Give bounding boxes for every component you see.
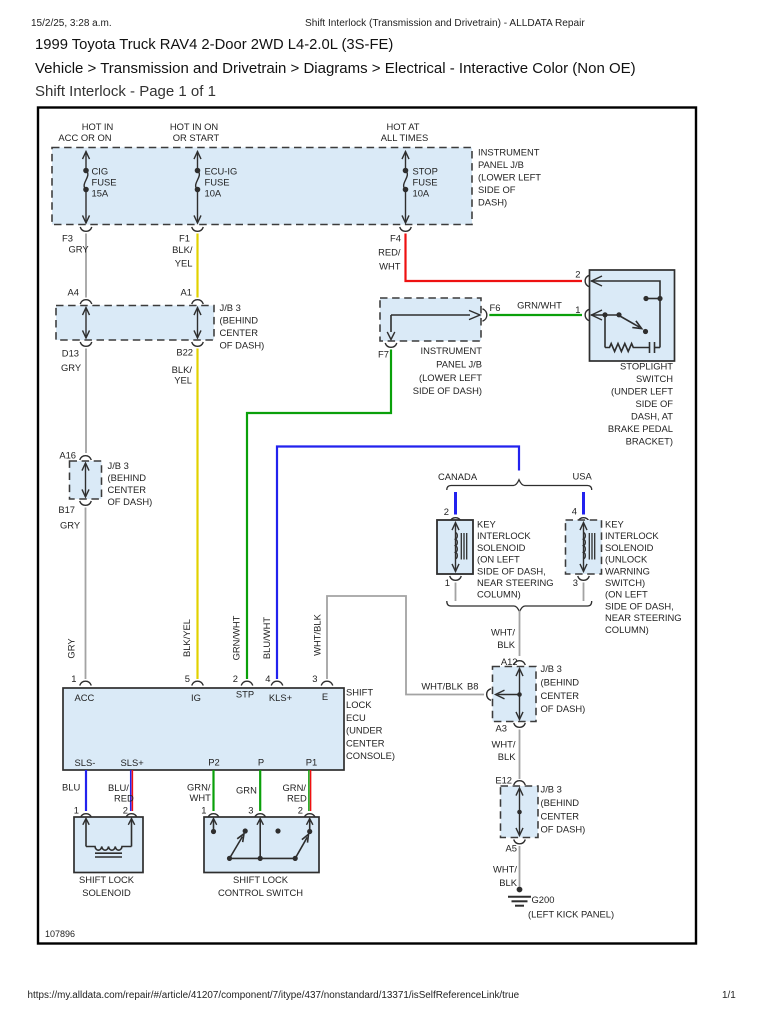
svg-text:ACC OR ON: ACC OR ON (58, 132, 111, 143)
connector pin 2 key interlock solenoid (Canada) (444, 506, 462, 522)
svg-text:2: 2 (444, 506, 449, 517)
svg-text:ECU-IG: ECU-IG (205, 165, 238, 176)
svg-text:SOLENOID: SOLENOID (82, 887, 131, 898)
brace CANADA/USA split (447, 480, 592, 490)
wire WHT/BLK brace to A12 (491, 611, 519, 657)
svg-text:CIG: CIG (92, 165, 109, 176)
wire GRN/WHT F6 to stoplight switch pin 1 (489, 300, 582, 316)
svg-text:A1: A1 (181, 287, 192, 298)
wire BLU/RED SLS+ to shift lock solenoid pin 2 (108, 770, 134, 811)
solenoid KEY INTERLOCK SOLENOID (Canada) (437, 520, 473, 574)
svg-text:KEY: KEY (477, 519, 497, 530)
svg-text:SOLENOID: SOLENOID (605, 542, 654, 553)
svg-text:HOT IN ON: HOT IN ON (170, 121, 218, 132)
svg-text:BLK: BLK (497, 639, 515, 650)
svg-text:(LOWER LEFT: (LOWER LEFT (419, 372, 482, 383)
connector B8 (467, 681, 491, 701)
svg-text:FUSE: FUSE (413, 176, 438, 187)
svg-text:J/B 3: J/B 3 (541, 784, 562, 795)
label Instrument Panel J/B (F7) (413, 345, 483, 396)
print header date (31, 18, 112, 29)
svg-text:A12: A12 (501, 656, 518, 667)
svg-text:INSTRUMENT: INSTRUMENT (478, 147, 540, 158)
svg-text:PANEL J/B: PANEL J/B (436, 358, 482, 369)
wire WHT/BLK ECU pin E to B8 (312, 596, 485, 695)
connector pin 4 key interlock solenoid (USA) (572, 506, 590, 523)
wire inside J/B to F6 (391, 314, 470, 316)
svg-text:SIDE OF: SIDE OF (478, 184, 516, 195)
footer url (28, 990, 520, 1001)
svg-text:NEAR STEERING: NEAR STEERING (477, 577, 554, 588)
svg-text:SHIFT LOCK: SHIFT LOCK (79, 874, 135, 885)
wire GRY F3 to A4 (69, 234, 90, 298)
svg-text:NEAR STEERING: NEAR STEERING (605, 612, 682, 623)
svg-text:F1: F1 (179, 233, 190, 244)
svg-text:OF DASH): OF DASH) (541, 824, 586, 835)
label STOPLIGHT SWITCH location (608, 361, 673, 447)
svg-text:(UNDER: (UNDER (346, 725, 383, 736)
svg-text:SLS+: SLS+ (121, 757, 145, 768)
svg-text:OR START: OR START (173, 132, 220, 143)
svg-text:3: 3 (573, 577, 578, 588)
fuse ECU-IG FUSE 10A (194, 152, 237, 224)
svg-text:WHT/BLK: WHT/BLK (312, 613, 323, 655)
connector A1 (181, 287, 204, 305)
wire GRN/WHT P2 to control switch pin 1 (187, 770, 214, 811)
connector F1 (179, 227, 203, 244)
svg-text:(LOWER LEFT: (LOWER LEFT (478, 172, 541, 183)
svg-text:SIDE OF DASH): SIDE OF DASH) (413, 385, 482, 396)
svg-text:COLUMN): COLUMN) (605, 624, 649, 635)
svg-text:USA: USA (573, 471, 593, 482)
label SHIFT LOCK SOLENOID (79, 874, 135, 898)
svg-text:SOLENOID: SOLENOID (477, 542, 526, 553)
connector pin 1 stoplight switch (575, 304, 589, 321)
switch SHIFT LOCK CONTROL SWITCH (204, 817, 319, 873)
wire inside J/B 3 A1-B22 (197, 308, 199, 339)
svg-text:BLU: BLU (62, 782, 80, 793)
wire inside J/B to F7 (390, 315, 392, 332)
svg-text:GRY: GRY (61, 362, 82, 373)
svg-text:J/B 3: J/B 3 (541, 663, 562, 674)
svg-text:2: 2 (233, 673, 238, 684)
svg-text:SWITCH: SWITCH (636, 373, 673, 384)
label J/B 3 (BEHIND CENTER OF DASH) (541, 784, 586, 835)
svg-text:YEL: YEL (175, 258, 193, 269)
connector A16 (59, 450, 91, 461)
svg-text:SWITCH): SWITCH) (605, 577, 645, 588)
brace merge to WHT/BLK (447, 601, 592, 612)
svg-text:WHT/: WHT/ (492, 739, 516, 750)
svg-text:CONTROL SWITCH: CONTROL SWITCH (218, 887, 303, 898)
connector pin 2 shift lock solenoid (123, 805, 138, 819)
wire BLK/YEL F1 to A1 (172, 234, 197, 298)
node HOT IN ON OR START (170, 121, 220, 143)
svg-text:WARNING: WARNING (605, 565, 650, 576)
node HOT IN ACC OR ON (58, 121, 113, 143)
label SHIFT LOCK ECU (UNDER CENTER CONSOLE) (346, 687, 395, 762)
svg-text:P2: P2 (208, 757, 219, 768)
connector pin 2 shift lock control switch (298, 805, 316, 819)
connector F4 (390, 227, 411, 244)
svg-text:BRACKET): BRACKET) (626, 436, 673, 447)
svg-text:OF DASH): OF DASH) (541, 703, 586, 714)
svg-text:GRN/: GRN/ (187, 782, 211, 793)
svg-text:1: 1 (445, 577, 450, 588)
connector ECU pin 1 (71, 673, 91, 686)
fuse STOP FUSE 10A (402, 152, 438, 224)
connector ECU pin 4 (265, 673, 283, 686)
svg-text:HOT IN: HOT IN (82, 121, 114, 132)
wire BLU stub to key interlock solenoid pin 2 (454, 492, 457, 515)
svg-text:PANEL J/B: PANEL J/B (478, 159, 524, 170)
label J/B 3 (BEHIND CENTER OF DASH) (541, 663, 586, 714)
connector A12 (501, 656, 525, 667)
connector pin 3 key interlock solenoid (USA) (573, 576, 590, 588)
svg-text:D13: D13 (62, 348, 79, 359)
connector B22 (176, 342, 203, 358)
fuse CIG FUSE 15A (83, 152, 117, 224)
svg-text:B8: B8 (467, 681, 478, 692)
connector F6 (483, 302, 501, 321)
svg-text:GRN/: GRN/ (283, 782, 307, 793)
svg-text:1: 1 (74, 805, 79, 816)
connector ECU pin 3 (312, 673, 333, 686)
svg-text:WHT: WHT (190, 792, 212, 803)
svg-text:SIDE OF DASH,: SIDE OF DASH, (477, 565, 546, 576)
svg-text:OF DASH): OF DASH) (220, 340, 265, 351)
svg-text:F6: F6 (490, 302, 501, 313)
svg-text:GRN/WHT: GRN/WHT (231, 615, 242, 660)
wire GRN/RED P1 to control switch pin 2 (283, 770, 311, 811)
svg-text:3: 3 (312, 673, 317, 684)
ground G200 (508, 887, 614, 920)
svg-text:BLU/: BLU/ (108, 782, 129, 793)
svg-text:RED: RED (287, 793, 307, 804)
svg-text:10A: 10A (413, 187, 430, 198)
svg-text:A16: A16 (59, 450, 76, 461)
svg-text:INTERLOCK: INTERLOCK (477, 530, 531, 541)
svg-text:P1: P1 (306, 757, 317, 768)
svg-text:F4: F4 (390, 233, 401, 244)
connector ECU pin 5 (185, 673, 204, 686)
connector F3 (62, 227, 92, 244)
node HOT AT ALL TIMES (381, 121, 428, 143)
svg-text:(BEHIND: (BEHIND (541, 797, 580, 808)
svg-text:INTERLOCK: INTERLOCK (605, 530, 659, 541)
wires inside J/B 3 A12-A3-B8 (519, 669, 521, 720)
connector B17 (58, 501, 91, 515)
svg-text:A3: A3 (496, 723, 507, 734)
svg-text:BLU/WHT: BLU/WHT (261, 617, 272, 659)
svg-text:F3: F3 (62, 233, 73, 244)
svg-text:1: 1 (575, 304, 580, 315)
svg-text:STOP: STOP (413, 165, 438, 176)
svg-text:GRY: GRY (66, 638, 77, 659)
svg-text:BLK: BLK (499, 877, 517, 888)
svg-text:B22: B22 (176, 347, 193, 358)
svg-text:1: 1 (201, 805, 206, 816)
svg-text:COLUMN): COLUMN) (477, 589, 521, 600)
svg-text:(UNDER LEFT: (UNDER LEFT (611, 386, 673, 397)
wire GRY D13 to A16 (61, 349, 86, 454)
connector A4 (68, 287, 92, 305)
connector ECU pin 2 (233, 673, 253, 686)
wire inside J/B 3 A4-D13 (85, 308, 87, 339)
svg-text:BLK/: BLK/ (172, 244, 193, 255)
junction block J/B 3 (A4/A1) (56, 306, 214, 341)
svg-text:10A: 10A (205, 187, 222, 198)
svg-text:WHT/BLK: WHT/BLK (421, 681, 463, 692)
junction block Instrument Panel J/B (fuse box) (52, 148, 472, 225)
svg-text:ECU: ECU (346, 712, 366, 723)
svg-text:107896: 107896 (45, 929, 75, 939)
svg-text:4: 4 (265, 673, 270, 684)
svg-text:GRN: GRN (236, 785, 257, 796)
svg-text:OF DASH): OF DASH) (108, 496, 153, 507)
print header title (305, 18, 585, 29)
svg-text:ACC: ACC (75, 692, 95, 703)
svg-text:LOCK: LOCK (346, 699, 372, 710)
svg-text:(UNLOCK: (UNLOCK (605, 554, 648, 565)
svg-text:CONSOLE): CONSOLE) (346, 750, 395, 761)
svg-text:WHT: WHT (379, 261, 401, 272)
svg-text:A5: A5 (506, 843, 517, 854)
wire WHT/BLK A3 to E12 (492, 730, 520, 780)
connector pin 1 shift lock control switch (201, 805, 219, 819)
svg-text:5: 5 (185, 673, 190, 684)
connector pin 2 stoplight switch (575, 269, 589, 287)
wire BLU/WHT stoplight net to ECU pin KLS+ (261, 447, 519, 680)
svg-text:DASH, AT: DASH, AT (631, 411, 673, 422)
svg-text:SLS-: SLS- (75, 757, 96, 768)
svg-text:RED: RED (114, 793, 134, 804)
wire GRN/WHT F7 to ECU pin STP (231, 350, 392, 680)
solenoid SHIFT LOCK SOLENOID (74, 817, 143, 873)
svg-text:SIDE OF: SIDE OF (635, 398, 673, 409)
svg-text:CANADA: CANADA (438, 471, 478, 482)
svg-text:A4: A4 (68, 287, 79, 298)
svg-text:CENTER: CENTER (541, 810, 580, 821)
svg-text:E12: E12 (495, 775, 512, 786)
svg-text:BLK/: BLK/ (172, 364, 193, 375)
svg-text:FUSE: FUSE (92, 176, 117, 187)
svg-text:CENTER: CENTER (108, 484, 147, 495)
svg-text:E: E (322, 691, 328, 702)
svg-text:(BEHIND: (BEHIND (541, 676, 580, 687)
svg-text:(BEHIND: (BEHIND (220, 315, 259, 326)
connector pin 1 shift lock solenoid (74, 805, 92, 819)
svg-text:P: P (258, 757, 264, 768)
label J/B 3 (BEHIND CENTER OF DASH) (220, 302, 265, 351)
svg-text:GRY: GRY (60, 520, 81, 531)
svg-text:ALL TIMES: ALL TIMES (381, 132, 428, 143)
svg-text:GRY: GRY (69, 244, 90, 255)
svg-text:CENTER: CENTER (346, 737, 385, 748)
wire GRN P to control switch pin 3 (236, 770, 260, 811)
label J/B 3 (BEHIND CENTER OF DASH) (108, 460, 153, 507)
connector pin 1 key interlock solenoid (Canada) (445, 576, 462, 588)
label SHIFT LOCK CONTROL SWITCH (218, 874, 303, 898)
label KEY INTERLOCK SOLENOID (USA) (605, 519, 682, 635)
wire BLU stub to key interlock solenoid pin 4 (582, 492, 585, 515)
svg-text:(ON LEFT: (ON LEFT (605, 589, 648, 600)
label Instrument Panel J/B (478, 147, 541, 208)
svg-text:BRAKE PEDAL: BRAKE PEDAL (608, 423, 673, 434)
svg-text:HOT AT: HOT AT (387, 121, 420, 132)
wire inside J/B 3 A16-B17 (85, 463, 87, 497)
svg-text:BLK/YEL: BLK/YEL (181, 619, 192, 657)
svg-text:STOPLIGHT: STOPLIGHT (620, 361, 673, 372)
footer page number (722, 990, 736, 1001)
svg-text:3: 3 (248, 805, 253, 816)
junction block J/B 3 (E12/A5) (501, 786, 539, 838)
svg-text:KLS+: KLS+ (269, 692, 293, 703)
svg-text:SHIFT LOCK: SHIFT LOCK (233, 874, 289, 885)
svg-text:RED/: RED/ (378, 247, 401, 258)
svg-text:1: 1 (71, 673, 76, 684)
svg-text:DASH): DASH) (478, 197, 507, 208)
svg-text:YEL: YEL (174, 375, 192, 386)
svg-text:KEY: KEY (605, 519, 625, 530)
svg-text:IG: IG (191, 692, 201, 703)
vehicle title (35, 37, 393, 53)
ECU box SHIFT LOCK ECU (63, 688, 344, 770)
svg-text:2: 2 (123, 805, 128, 816)
svg-text:2: 2 (575, 269, 580, 280)
svg-text:STP: STP (236, 689, 254, 700)
page subtitle (35, 83, 216, 100)
breadcrumb (35, 60, 636, 77)
svg-text:FUSE: FUSE (205, 176, 230, 187)
svg-text:2: 2 (298, 805, 303, 816)
svg-text:15A: 15A (92, 187, 109, 198)
connector D13 (62, 342, 92, 359)
solenoid KEY INTERLOCK SOLENOID (USA) (566, 520, 602, 574)
svg-text:INSTRUMENT: INSTRUMENT (421, 345, 483, 356)
wire inside J/B 3 E12-A5 (519, 788, 521, 836)
wire stub solenoid pin 3 (583, 583, 585, 602)
connector A5 (506, 840, 526, 854)
svg-text:CENTER: CENTER (220, 327, 259, 338)
wire RED/WHT F4 to stoplight switch pin 2 (378, 234, 582, 282)
svg-text:F7: F7 (378, 349, 389, 360)
svg-text:(LEFT KICK PANEL): (LEFT KICK PANEL) (528, 909, 614, 920)
svg-text:SIDE OF DASH,: SIDE OF DASH, (605, 600, 674, 611)
svg-text:BLK: BLK (498, 751, 516, 762)
svg-text:GRN/WHT: GRN/WHT (517, 300, 562, 311)
connector pin 3 shift lock control switch (248, 805, 266, 819)
connector E12 (495, 775, 525, 786)
wire BLK/YEL B22 to ECU pin IG (172, 349, 198, 680)
switch STOPLIGHT SWITCH (590, 270, 675, 361)
svg-text:B17: B17 (58, 504, 75, 515)
svg-text:(ON LEFT: (ON LEFT (477, 554, 520, 565)
wire BLU SLS- to shift lock solenoid pin 1 (62, 770, 86, 811)
svg-text:WHT/: WHT/ (491, 627, 515, 638)
svg-text:WHT/: WHT/ (493, 864, 517, 875)
connector A3 (496, 723, 526, 734)
connector F7 (378, 343, 397, 360)
wire WHT/BLK A5 to G200 (493, 846, 519, 888)
junction block Instrument Panel J/B (F6/F7) (380, 298, 481, 341)
svg-text:4: 4 (572, 506, 577, 517)
wire GRY B17 to ECU pin ACC (60, 508, 86, 680)
svg-text:CENTER: CENTER (541, 690, 580, 701)
svg-text:J/B 3: J/B 3 (108, 460, 129, 471)
svg-text:(BEHIND: (BEHIND (108, 472, 147, 483)
svg-text:J/B 3: J/B 3 (220, 302, 241, 313)
svg-text:SHIFT: SHIFT (346, 687, 373, 698)
junction block J/B 3 (A16/B17) (70, 461, 102, 499)
svg-text:G200: G200 (532, 894, 555, 905)
junction block J/B 3 (A12/B8/A3) (493, 667, 537, 722)
wire stub solenoid pin 1 (455, 583, 457, 602)
label KEY INTERLOCK SOLENOID (Canada) (477, 519, 554, 600)
